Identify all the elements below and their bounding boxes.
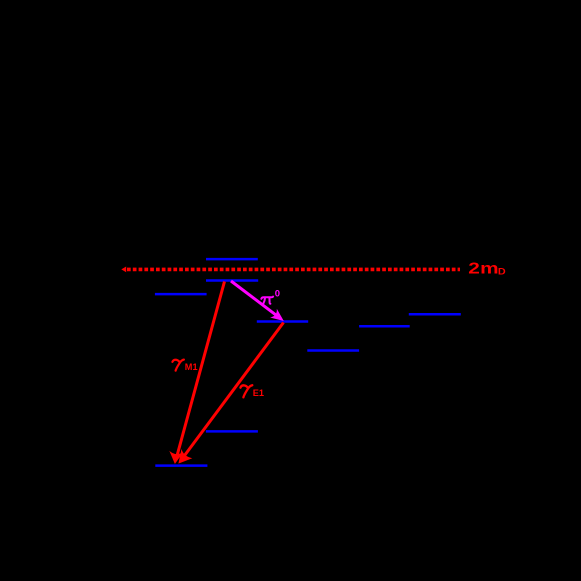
label gamma_M1 bbox=[172, 360, 197, 372]
svg-text:D: D bbox=[498, 267, 506, 277]
label pi0 bbox=[261, 289, 280, 305]
level line psi(2S) (source of arrows) bbox=[206, 279, 258, 282]
arrow gamma_E1 (h_c to eta_c) bbox=[178, 323, 283, 464]
svg-text:M1: M1 bbox=[185, 362, 198, 372]
arrow gamma_M1 (psi(2S) to eta_c) bbox=[169, 282, 224, 465]
level line J/psi bbox=[206, 430, 258, 433]
level line eta_c (bottom, arrow target) bbox=[155, 464, 207, 467]
svg-text:2m: 2m bbox=[468, 259, 499, 277]
level line chi_c2 bbox=[409, 313, 461, 316]
svg-text:E1: E1 bbox=[253, 388, 264, 398]
level line chi_c0 bbox=[307, 349, 359, 352]
threshold line 2mD (red dotted with left arrow) bbox=[121, 267, 460, 273]
arrow pi0 (psi(2S) to h_c, magenta) bbox=[231, 281, 284, 321]
label 2mD bbox=[468, 259, 505, 277]
level line psi(3770) (top, above threshold) bbox=[206, 258, 258, 261]
level line eta_c(2S) (left) bbox=[155, 293, 207, 296]
level line h_c (pi0 target) bbox=[257, 320, 308, 323]
label gamma_E1 bbox=[240, 385, 264, 398]
svg-text:0: 0 bbox=[275, 289, 280, 300]
level line chi_c1 bbox=[359, 325, 410, 328]
